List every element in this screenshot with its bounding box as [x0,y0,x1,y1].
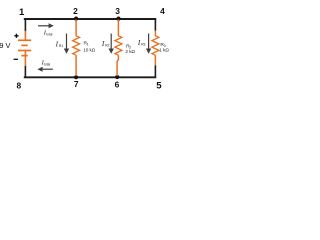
current label I_R3 [137,39,146,47]
battery value label 9 V [0,41,10,50]
wire bottom rail node8 to node5 [24,76,156,78]
svg-text:1: 1 [87,43,89,47]
svg-text:3: 3 [115,6,120,16]
svg-text:7: 7 [74,79,79,89]
resistor R2 value label 2 kOhm [125,49,135,54]
current label I_R2 [101,40,110,48]
resistor R3 value label 1 kOhm [159,48,169,53]
svg-text:R2: R2 [105,44,109,48]
node 3 label [115,6,120,16]
current label I_total bottom [41,60,51,67]
resistor R1 [73,20,80,77]
resistor R1 value label 10 kOhm [83,48,95,53]
node 7 label [74,79,79,89]
svg-text:2: 2 [73,6,78,16]
node 4 label [160,6,165,16]
resistor R1 name label [84,41,89,47]
svg-text:1 kΩ: 1 kΩ [159,48,169,53]
junction dot node 6 [115,75,119,79]
junction dot node 2 [74,17,78,21]
wire left branch (battery leads) [24,18,26,77]
svg-text:total: total [46,32,52,36]
resistor R2 [115,20,122,77]
battery minus sign [14,58,18,60]
svg-text:5: 5 [156,81,162,92]
current arrow I_total bottom (leftward) [37,67,53,72]
svg-text:8: 8 [16,81,21,91]
current arrow I_total top (rightward) [38,23,54,28]
battery V1 9V [18,31,31,66]
resistor R2 name label [126,43,131,49]
current arrow I_R3 (downward) [146,34,151,54]
resistor R3 [152,18,159,77]
resistor R3 name label [160,42,165,48]
svg-text:4: 4 [160,6,165,16]
svg-text:R1: R1 [59,44,63,48]
svg-text:total: total [44,62,50,66]
junction dot node 3 [116,17,120,21]
wire top rail node1 to node4 [24,18,156,20]
svg-text:2 kΩ: 2 kΩ [125,49,135,54]
svg-text:6: 6 [115,80,120,90]
current label I_R1 [55,40,64,48]
junction dot node 7 [74,75,78,79]
svg-text:R3: R3 [141,42,145,46]
node 8 label [16,81,21,91]
battery plus sign [14,34,18,38]
node 6 label [115,80,120,90]
current arrow I_R2 (downward) [109,34,114,54]
svg-text:10 kΩ: 10 kΩ [83,48,95,53]
node 2 label [73,6,78,16]
current arrow I_R1 (downward) [64,34,69,54]
current label I_total top [43,30,53,37]
svg-text:1: 1 [19,7,25,18]
node 5 label [156,81,162,92]
svg-text:9 V: 9 V [0,41,10,50]
node 1 label [19,7,25,18]
